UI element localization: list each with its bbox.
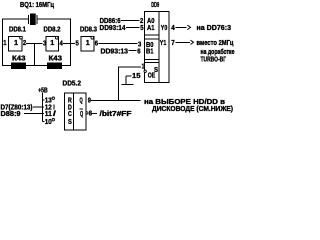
wire to DD9 pin 2 (121, 19, 140, 21)
svg-text:DD8.2: DD8.2 (44, 27, 61, 34)
svg-text:DD5.2: DD5.2 (63, 80, 82, 87)
svg-text:9: 9 (88, 98, 91, 105)
wire to DD9 pin 5 (126, 26, 140, 28)
svg-text:DD8.1: DD8.1 (9, 27, 26, 34)
svg-text:B1: B1 (146, 49, 154, 56)
flip-flop DD5.2 (65, 93, 87, 130)
svg-text:6: 6 (95, 40, 98, 47)
svg-text:Y1: Y1 (160, 40, 167, 47)
svg-text:11: 11 (45, 111, 52, 118)
svg-text:2: 2 (140, 18, 143, 25)
wire +5V rail (42, 93, 44, 122)
wire DD9 pin 15 OE (126, 75, 131, 77)
inverter DD8.2 (46, 36, 59, 50)
crystal BQ1 (29, 14, 37, 26)
svg-text:/bit7#FF: /bit7#FF (100, 111, 133, 118)
resistor R2 (47, 63, 62, 70)
svg-text:10: 10 (45, 119, 52, 126)
svg-text:3: 3 (138, 42, 141, 49)
svg-text:на ВЫБОРЕ HD/DD в: на ВЫБОРЕ HD/DD в (144, 99, 226, 106)
wire node A to R1 (2, 65, 11, 67)
wire to DD9 pin 6 (129, 50, 137, 52)
svg-text:Q: Q (80, 98, 84, 105)
svg-text:/: / (53, 111, 56, 118)
svg-text:C: C (68, 111, 72, 118)
wire DD8.2 out to DD8.3 in (63, 43, 75, 45)
svg-text:DD93:13: DD93:13 (101, 49, 129, 56)
svg-text:6: 6 (137, 49, 140, 56)
svg-text:7: 7 (171, 40, 175, 47)
svg-text:1: 1 (3, 40, 6, 47)
svg-text:1: 1 (142, 64, 145, 71)
svg-text:1: 1 (86, 40, 90, 47)
pin 8 (86, 112, 88, 114)
wire R1 to node B (26, 65, 47, 67)
wire DD9 pin 1 S (118, 66, 141, 68)
svg-text:R: R (68, 98, 72, 105)
svg-text:DD8.3: DD8.3 (80, 27, 97, 34)
inverter DD8.3 (81, 36, 94, 50)
wire DD8.3 out to DD9 B0 (99, 43, 138, 45)
svg-text:A1: A1 (147, 25, 155, 32)
svg-text:ДИСКОВОДЕ (СМ.НИЖЕ): ДИСКОВОДЕ (СМ.НИЖЕ) (152, 106, 233, 113)
svg-text:вместо 2МГц: вместо 2МГц (197, 40, 235, 47)
svg-text:1: 1 (50, 40, 54, 47)
mux DD9 (145, 12, 170, 83)
wire to pin 10 (43, 121, 45, 123)
svg-text:DD9: DD9 (151, 2, 159, 9)
wire to pin 11 (24, 113, 44, 115)
wire node A vertical (2, 19, 4, 66)
wire top rail left (2, 18, 29, 20)
wire Y1 output arrow (176, 41, 191, 43)
wire node C vertical (70, 19, 72, 66)
svg-text:на DD76:3: на DD76:3 (197, 25, 232, 32)
svg-text:S: S (68, 119, 72, 126)
wire Qbar out (92, 113, 98, 115)
wire R2 to node C (62, 65, 71, 67)
svg-text:BQ1: 16МГц: BQ1: 16МГц (20, 2, 55, 9)
resistor R1 (11, 63, 26, 70)
ground (125, 76, 127, 84)
svg-text:DD93:14: DD93:14 (100, 25, 126, 32)
wire to pin 12 (33, 106, 44, 108)
svg-text:4: 4 (60, 40, 63, 47)
svg-text:2: 2 (23, 40, 26, 47)
svg-text:13: 13 (45, 98, 52, 105)
svg-text:1: 1 (14, 40, 18, 47)
svg-text:Q: Q (80, 111, 84, 118)
svg-text:на доработке: на доработке (201, 48, 235, 56)
svg-text:5: 5 (140, 25, 143, 32)
svg-text:К43: К43 (12, 55, 26, 62)
wire S down to Q (117, 67, 119, 100)
svg-text:5: 5 (76, 40, 79, 47)
wire top rail right (37, 18, 71, 20)
pin 12 tick (53, 105, 55, 110)
svg-text:OE: OE (148, 73, 156, 80)
svg-text:15: 15 (132, 73, 141, 80)
svg-text:A0: A0 (147, 18, 155, 25)
wire to pin 13 (43, 99, 45, 101)
svg-text:D88:9: D88:9 (1, 111, 21, 118)
svg-text:Y0: Y0 (161, 25, 168, 32)
svg-text:К43: К43 (49, 55, 63, 62)
svg-text:TURBO-ВГ: TURBO-ВГ (201, 57, 227, 64)
wire node B vertical (34, 44, 36, 66)
wire DD8.1 out to DD8.2 in (26, 43, 42, 45)
svg-text:DD86:6: DD86:6 (100, 18, 121, 25)
wire Q out (91, 99, 140, 101)
wire Y0 output arrow (176, 26, 187, 28)
svg-text:4: 4 (171, 25, 175, 32)
inverter DD8.1 (9, 36, 23, 50)
